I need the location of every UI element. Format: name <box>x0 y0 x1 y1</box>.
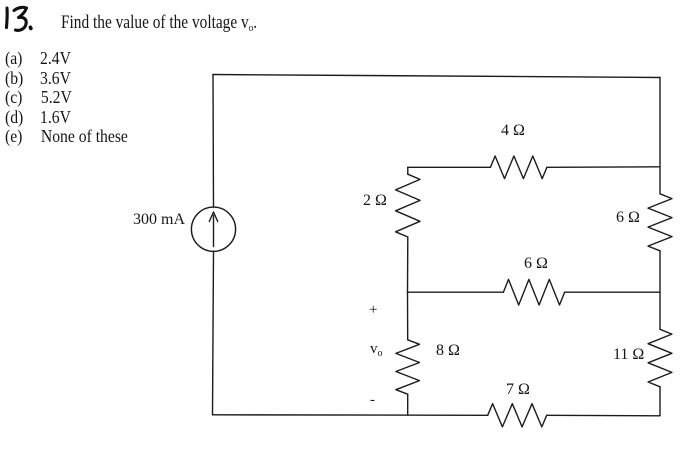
wire: outer bottom left of R7 <box>213 414 488 417</box>
resistor R2 2ohm (vertical) <box>396 174 420 237</box>
wire: outer bottom right of R7 <box>547 414 660 417</box>
current source I1 300 mA (circle) <box>191 207 235 251</box>
handwritten problem number 13. <box>7 7 31 30</box>
label: 6 ohm value (middle horizontal) <box>524 255 548 273</box>
choice (b) 3.6V <box>5 68 71 89</box>
label: 300 mA (current source value) <box>133 211 185 229</box>
title: Find the value of the voltage vo. <box>61 12 257 34</box>
wire: right vertical between R6a and R11 <box>659 251 661 329</box>
current source I1 arrow <box>209 212 217 247</box>
wire: stub from inner-top node down to R2 <box>407 167 409 174</box>
label: minus sign of vo <box>370 392 375 409</box>
wire: left vertical above source <box>212 75 215 208</box>
choice (a) 2.4V <box>5 48 71 69</box>
wire: vertical between R2 and middle node <box>407 237 409 292</box>
wire: middle horizontal left stub <box>408 291 504 293</box>
resistor R11 11ohm (right vertical) <box>648 329 672 387</box>
wire: right vertical below R11 <box>659 387 661 416</box>
choice (e) None of these <box>5 126 128 147</box>
label: 2 ohm value <box>363 192 387 210</box>
label: 6 ohm value (right vertical) <box>616 209 640 227</box>
wire: vertical below R8 to bottom wire <box>407 394 409 415</box>
resistor R6a 6ohm (right vertical) <box>648 194 672 251</box>
wire: vertical from middle node down to R8 <box>407 292 409 340</box>
wire: inner top left stub <box>408 166 491 168</box>
label: 11 ohm value <box>613 346 644 364</box>
label: 8 ohm value <box>436 342 460 360</box>
choice (c) 5.2V <box>5 87 72 108</box>
label: plus sign of vo <box>369 302 377 319</box>
resistor R6b 6ohm (horizontal, middle wire) <box>503 279 564 305</box>
resistor R4 4ohm (horizontal, inner top wire) <box>490 156 547 179</box>
wire: left vertical below source <box>213 251 214 414</box>
choice (d) 1.6V <box>5 107 71 128</box>
label: vo node voltage <box>370 341 383 358</box>
wire: outer top <box>213 75 660 78</box>
label: 7 ohm value <box>506 381 530 399</box>
resistor R8 8ohm (vertical, vo across it) <box>396 340 420 394</box>
wire: inner top right segment to right rail <box>547 166 660 169</box>
wire: middle horizontal right segment to right rail <box>565 291 660 293</box>
label: 4 ohm value <box>501 122 525 140</box>
wire: right vertical top segment <box>659 78 661 194</box>
resistor R7 7ohm (horizontal, bottom wire) <box>488 404 547 427</box>
